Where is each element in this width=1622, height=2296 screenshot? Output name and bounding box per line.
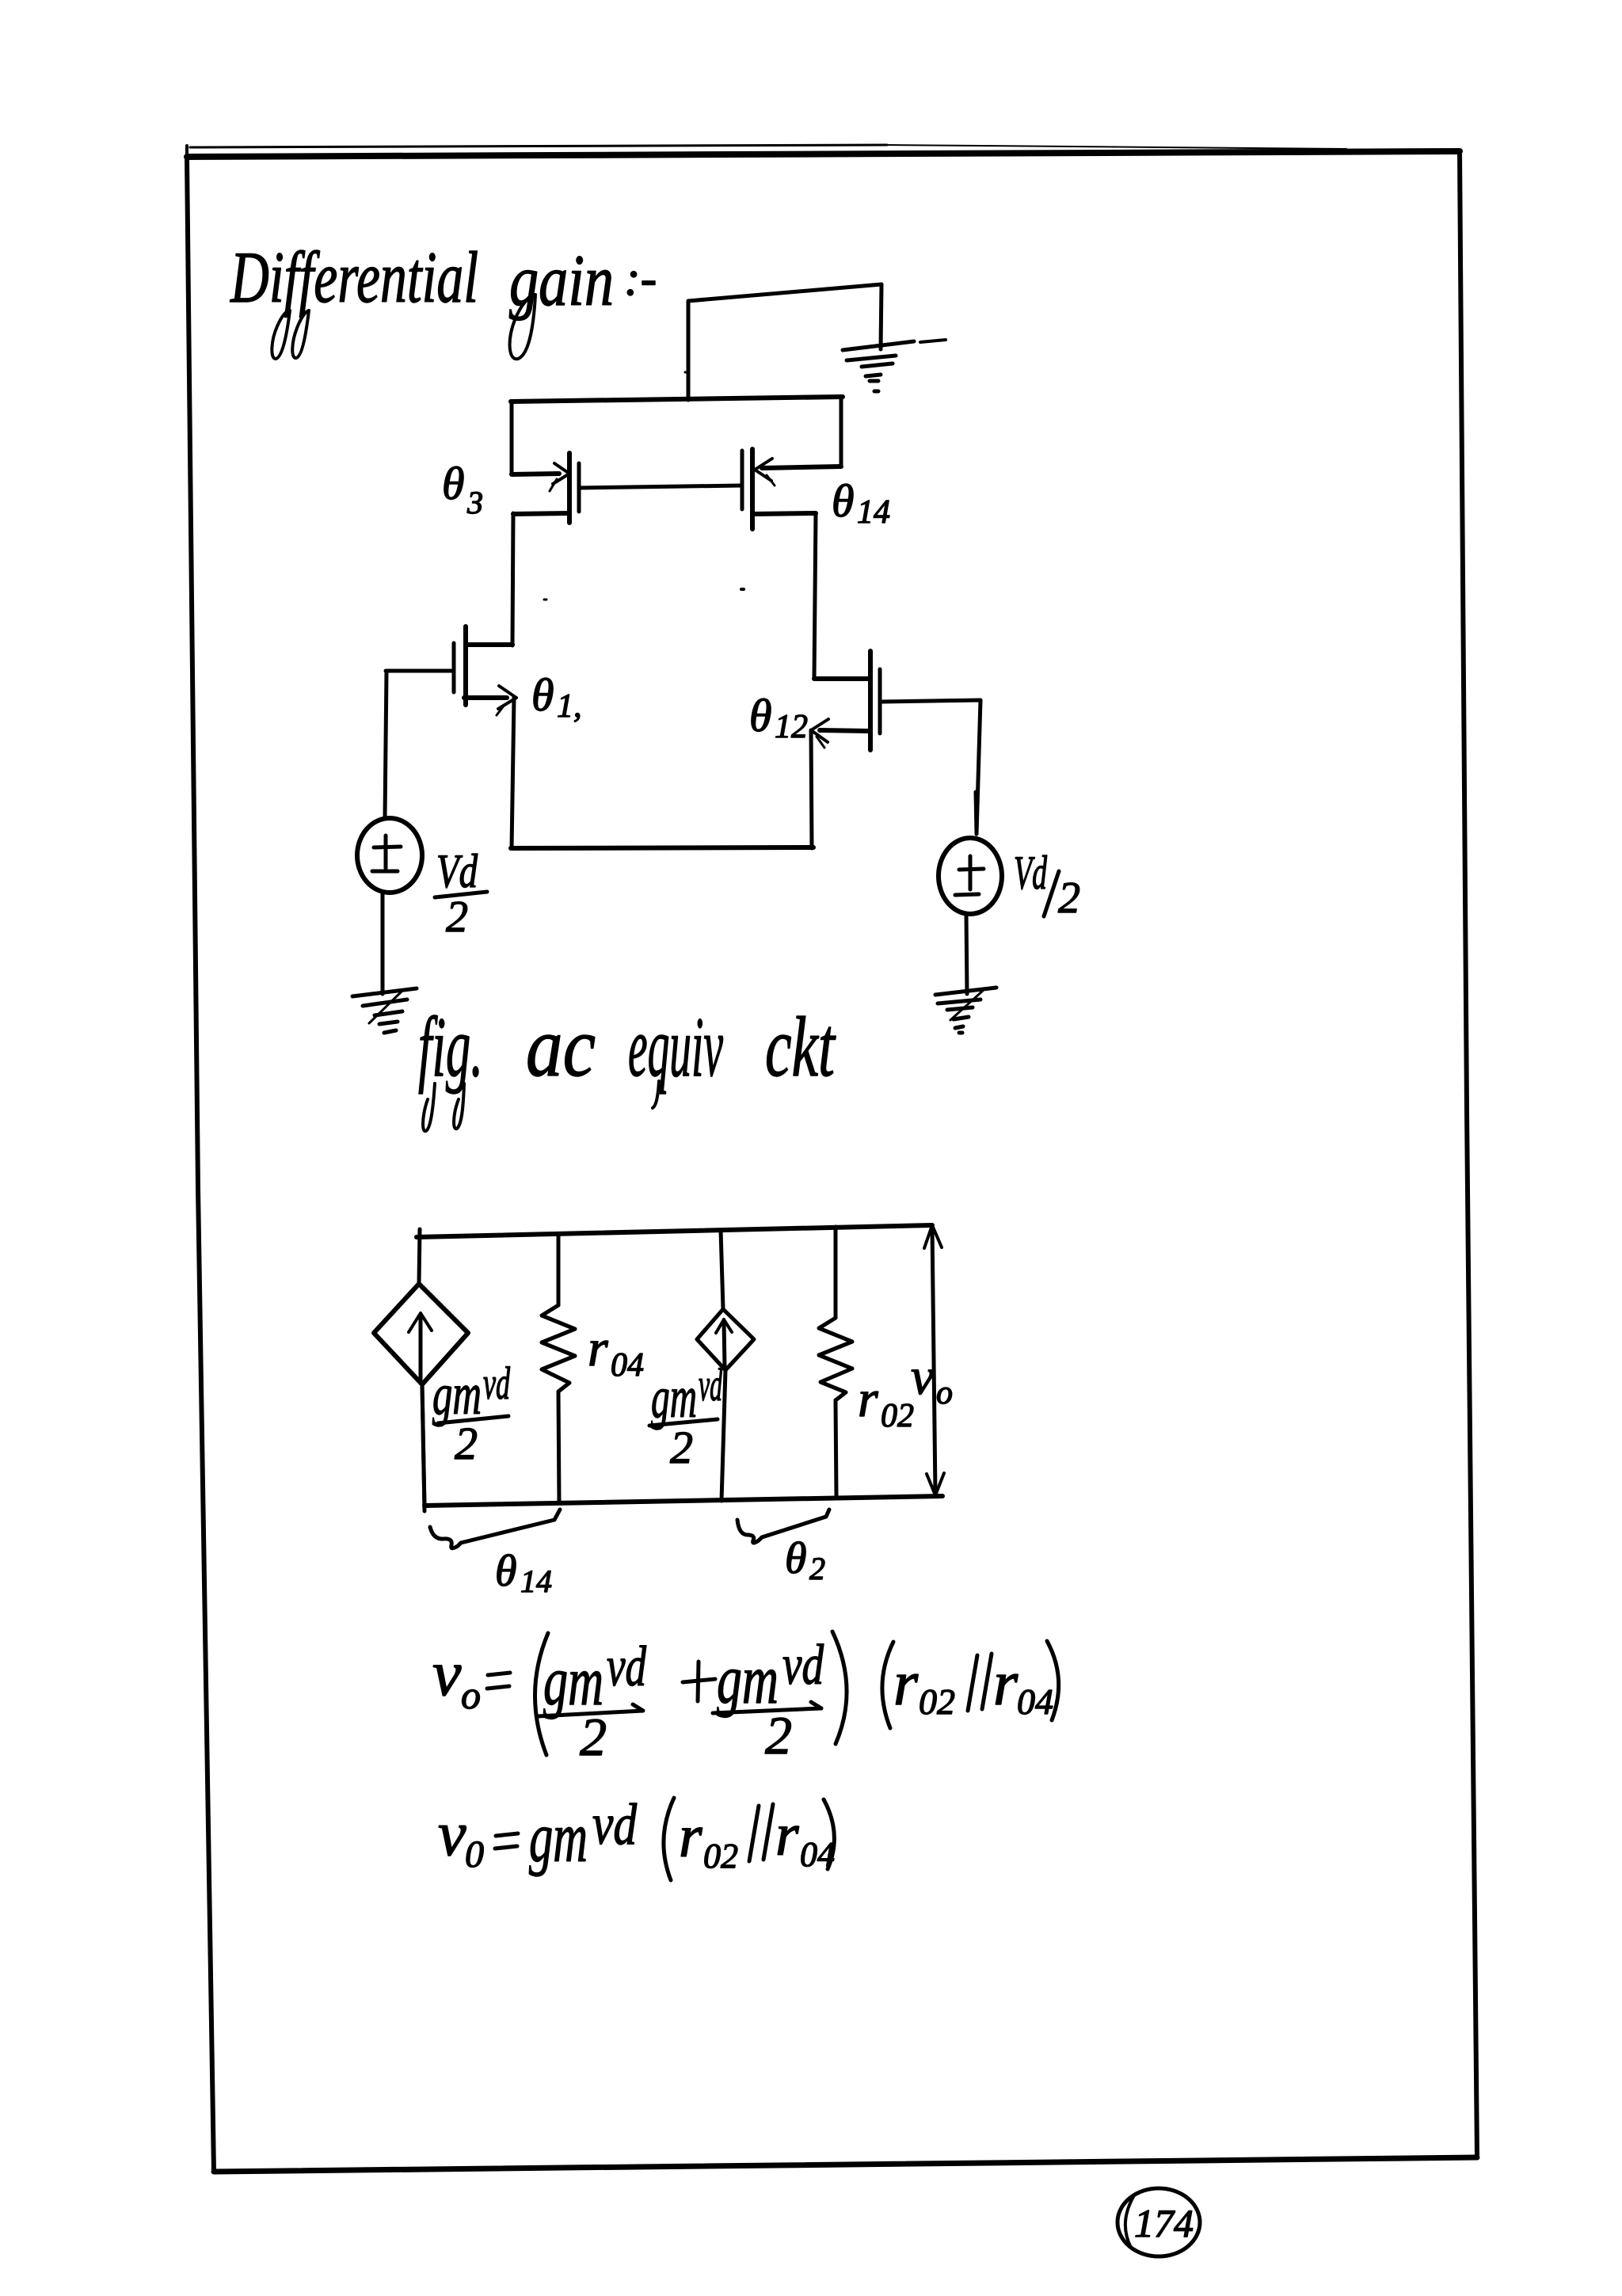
svg-text:vd: vd [592,1792,638,1857]
equation 1 big paren left [535,1633,548,1755]
svg-text:θ: θ [531,669,554,721]
current source G1 [374,1284,468,1384]
svg-text:r: r [858,1370,878,1428]
svg-text:r: r [893,1649,919,1719]
svg-text:ac: ac [526,1000,596,1095]
wire bus to Q3 source [510,402,514,474]
svg-text:2: 2 [446,893,468,942]
title ff descender loops [272,310,290,359]
svg-text:r: r [588,1319,608,1377]
svg-text:04: 04 [611,1347,644,1384]
wire middle branch upper [721,1230,723,1309]
svg-text:2: 2 [809,1551,825,1586]
equation 1 r02 [893,1649,955,1722]
resistor r04 [542,1234,575,1502]
svg-text:r: r [993,1649,1019,1719]
ground right [935,988,996,1033]
svg-text:gm: gm [529,1799,588,1877]
equation 1 big paren right [832,1632,847,1744]
equation 2 r04 [775,1802,835,1874]
equation 2 paren right [824,1799,834,1869]
ground left [352,988,417,1033]
equation 1 [432,1637,481,1717]
brace under Q4 [430,1510,560,1548]
transistor Q3 [512,453,579,523]
stray specks [741,588,744,591]
equation 1 parallel [968,1654,992,1711]
fraction bar gmVd/2 right [649,1419,718,1426]
equation 1 fraction 1 bar [538,1704,643,1716]
equation 2 r02 [679,1803,738,1875]
label r02 [858,1370,914,1434]
label Q1 [531,669,582,725]
svg-text:vd: vd [483,1357,511,1409]
label Vd/2 left [436,845,478,942]
equation 2 parallel [749,1804,773,1861]
fraction bar Vd/2 left [435,892,487,897]
node Vo measurement line [924,1225,944,1495]
wire bottom rail (ac equiv) [425,1496,942,1506]
svg-text:vd: vd [782,1633,824,1696]
label Q2 under brace [785,1534,825,1586]
transistor Q4 [742,449,841,529]
equation 1 plus [683,1662,715,1701]
wire middle branch lower [722,1370,725,1501]
svg-text:Vd: Vd [436,845,478,897]
wire Q4 source vertical [840,398,843,466]
label Vo [911,1348,953,1411]
svg-text:vd: vd [607,1635,647,1698]
svg-text:1,: 1, [557,688,582,725]
svg-text:equiv: equiv [628,1000,723,1095]
label r04 [588,1319,644,1384]
svg-text:o: o [936,1375,953,1411]
ground top right [843,340,946,391]
caption fig. ac equiv ckt [418,1000,836,1095]
current source G2 [697,1309,754,1370]
svg-text:θ: θ [749,690,772,741]
wire gate Q3-Q4 [580,485,741,488]
wire left branch upper [419,1229,420,1284]
equation 2 paren left [664,1798,674,1880]
svg-text:14: 14 [857,494,890,531]
svg-text:r: r [775,1802,799,1868]
svg-text:2: 2 [765,1705,792,1765]
svg-text:12: 12 [775,709,808,745]
label Q2 [749,690,808,745]
border frame (decorative) [187,145,1477,2172]
svg-text:r: r [679,1803,702,1870]
svg-text:2: 2 [455,1418,478,1469]
voltage source V1 [357,818,422,893]
svg-text:v: v [911,1348,935,1406]
label Q3 [442,458,483,520]
transistor Q2 [811,651,880,750]
label Q4 [832,475,890,531]
wire Q2 source vertical [811,730,812,848]
svg-text:o: o [461,1673,481,1717]
svg-text::-: :- [624,252,657,306]
svg-text:vd: vd [699,1359,723,1411]
caption fig descenders [423,1083,435,1131]
wire top bus [511,397,843,402]
equation 1 fraction 2 [717,1633,824,1765]
wire top right vertical to ground [881,284,881,349]
equation 1 paren right small [1047,1641,1059,1720]
wire top left vertical [687,301,691,400]
caption equiv q descender [653,1081,659,1108]
svg-text:2: 2 [1058,874,1080,923]
label gmVd/2 right [651,1359,723,1473]
wire below V1 [381,893,385,994]
wire Q1 gate [385,671,453,818]
wire Q3 drain vertical [512,513,513,645]
svg-text:2: 2 [670,1422,693,1473]
svg-text:θ: θ [832,475,855,527]
wire Q1 source vertical [512,698,514,848]
equation 1 paren left small [882,1642,893,1728]
equation 1 fraction 2 bar [713,1702,821,1713]
equation 2 [438,1799,484,1875]
resistor r02 [819,1227,852,1497]
wire left branch lower [422,1384,425,1506]
svg-text:θ: θ [785,1534,807,1583]
svg-text:174: 174 [1134,2201,1194,2245]
equation 2 gmvd [529,1792,638,1877]
title Differential gain [230,237,657,321]
wire top slant [688,284,881,301]
equation 1 equals [487,1673,510,1689]
label Vd/2 right [1014,847,1080,923]
svg-text:ckt: ckt [765,1000,836,1095]
svg-text:θ: θ [442,458,465,509]
svg-text:gain: gain [509,240,614,321]
equation 2 equals [495,1833,518,1849]
svg-text:02: 02 [919,1681,955,1722]
svg-text:04: 04 [1017,1681,1053,1722]
brace under Q2 [737,1510,829,1543]
wire Q2 gate [881,700,980,834]
label gmVd/2 left [432,1357,511,1469]
title g descender loop [510,295,535,359]
svg-text:3: 3 [466,485,483,520]
svg-text:02: 02 [881,1398,914,1434]
wire below V2 [966,914,967,994]
slash Vd/2 right [1044,871,1059,916]
equation 1 fraction 1 [543,1635,647,1767]
svg-text:v: v [432,1637,462,1709]
label Q4 under brace [495,1547,552,1599]
svg-text:θ: θ [495,1547,517,1596]
fraction bar gmVd/2 left [438,1416,508,1423]
page number 174 [1118,2188,1200,2256]
wire top rail (ac equiv) [417,1225,932,1237]
voltage source V2 [939,792,1002,914]
transistor Q1 [454,626,516,715]
svg-text:Differential: Differential [230,237,478,318]
svg-text:0: 0 [465,1833,484,1875]
svg-text:v: v [438,1799,466,1869]
svg-text:fig.: fig. [418,1000,483,1095]
wire Q4 drain vertical [814,513,816,679]
wire bottom bus [511,847,813,848]
svg-text:Vd: Vd [1014,847,1048,899]
svg-text:02: 02 [703,1837,738,1875]
svg-text:14: 14 [520,1563,552,1599]
equation 1 r04 [993,1649,1053,1722]
